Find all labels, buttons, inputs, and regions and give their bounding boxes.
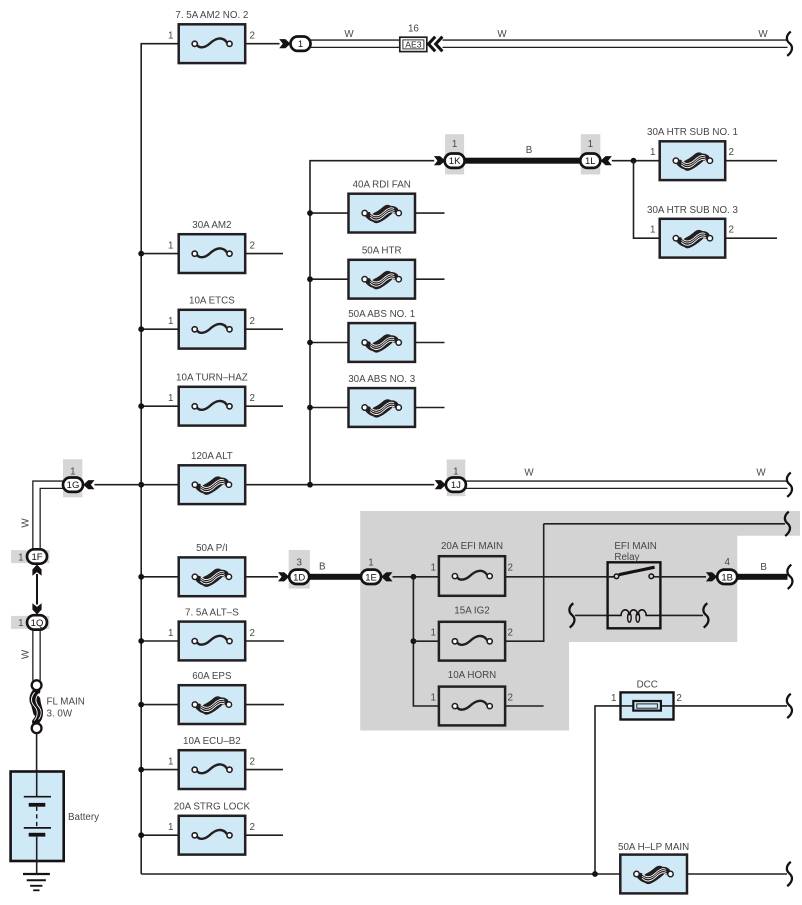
svg-text:30A HTR SUB NO. 1: 30A HTR SUB NO. 1 <box>647 127 738 138</box>
junction node <box>307 340 313 346</box>
connector 1G label box <box>63 459 82 497</box>
svg-text:DCC: DCC <box>637 679 658 690</box>
svg-text:15A IG2: 15A IG2 <box>454 605 489 616</box>
wire from 50A P/I pin 2 to 1D <box>245 576 278 578</box>
fuse 60A EPS <box>179 671 246 724</box>
junction node <box>138 251 144 257</box>
wire: bus to 30A ABS NO.3 <box>310 407 349 409</box>
connector 1D label box <box>289 550 310 589</box>
svg-text:1J: 1J <box>451 480 461 491</box>
fuse 10A TURN-HAZ <box>168 373 255 426</box>
svg-text:1: 1 <box>650 225 655 236</box>
fuse 7.5A AM2 NO.2 <box>168 10 255 63</box>
connector arrow into 1J <box>435 480 446 489</box>
svg-text:7. 5A ALT–S: 7. 5A ALT–S <box>185 607 239 618</box>
wire FL MAIN to battery <box>36 733 38 772</box>
junction node <box>138 832 144 838</box>
junction node <box>138 403 144 409</box>
wire: middle bus vertical <box>310 161 434 485</box>
svg-text:50A H–LP MAIN: 50A H–LP MAIN <box>618 842 689 853</box>
wire break symbol <box>787 694 792 718</box>
wire break symbol <box>703 603 708 627</box>
wire: bus to 10A ETCS <box>141 328 179 330</box>
connector 1K label box <box>445 134 464 174</box>
svg-text:1: 1 <box>298 39 303 50</box>
junction node <box>592 871 598 877</box>
junction node <box>411 574 417 580</box>
wire from bus left to 1G arrow <box>95 484 142 486</box>
wire break symbol <box>785 512 790 536</box>
connector arrow up into 1F <box>32 564 41 575</box>
svg-text:2: 2 <box>508 563 513 574</box>
junction node <box>138 638 144 644</box>
junction node middle bus on ALT wire <box>307 482 313 488</box>
svg-text:B: B <box>526 145 533 156</box>
fuse 50A ABS NO.1 <box>348 309 415 362</box>
svg-text:2: 2 <box>676 693 681 704</box>
fuse 40A RDI FAN <box>349 180 416 233</box>
svg-text:2: 2 <box>250 628 255 639</box>
wire from HTR SUB NO.3 pin 2 <box>725 237 777 239</box>
svg-text:1: 1 <box>430 692 435 703</box>
svg-text:1: 1 <box>168 756 173 767</box>
svg-text:2: 2 <box>250 31 255 42</box>
fuse 50A HTR <box>349 246 416 299</box>
wire from ETCS pin 2 <box>245 328 283 330</box>
hollow wire W from 1G down to 1F <box>33 481 63 550</box>
wire: bus to 50A P/I <box>141 576 179 578</box>
svg-text:50A ABS NO. 1: 50A ABS NO. 1 <box>348 309 415 320</box>
svg-text:7. 5A AM2 NO. 2: 7. 5A AM2 NO. 2 <box>175 10 248 21</box>
wire: bus to 30A AM2 <box>141 253 179 255</box>
svg-text:50A HTR: 50A HTR <box>362 246 402 257</box>
connector 1F label box <box>11 550 49 563</box>
svg-text:W: W <box>758 29 768 40</box>
hollow wire W: AE3 to right break <box>443 39 788 41</box>
svg-text:40A RDI FAN: 40A RDI FAN <box>353 180 411 191</box>
wire from 50A HTR pin 2 <box>415 278 445 280</box>
wire: bus to 10A ECU-B2 <box>141 769 179 771</box>
svg-text:2: 2 <box>508 628 513 639</box>
svg-text:W: W <box>756 467 766 478</box>
connector arrow down into 1Q <box>32 603 41 614</box>
svg-text:1: 1 <box>70 466 75 477</box>
junction node <box>138 767 144 773</box>
wire from ABS NO.3 pin 2 <box>415 407 445 409</box>
fuse 120A ALT <box>179 451 246 504</box>
wire: bus to 7.5A ALT-S <box>141 640 179 642</box>
wire: bus to 20A STRG LOCK <box>141 834 179 836</box>
svg-text:1: 1 <box>168 316 173 327</box>
connector oval 1 <box>291 37 311 51</box>
connector oval 1E <box>361 570 381 584</box>
svg-text:1: 1 <box>168 31 173 42</box>
connector oval 1D <box>289 570 309 584</box>
junction node <box>631 158 637 164</box>
hollow wire W: oval 1 to AE3 <box>311 39 401 41</box>
fuse 50A H-LP MAIN <box>618 842 689 894</box>
wire from ABS NO.1 pin 2 <box>415 342 445 344</box>
wire from 1E to 20A EFI MAIN <box>393 576 439 578</box>
svg-text:2: 2 <box>729 225 734 236</box>
svg-text:1: 1 <box>18 618 23 629</box>
svg-text:FL MAIN: FL MAIN <box>47 697 85 708</box>
svg-text:2: 2 <box>250 240 255 251</box>
junction node <box>307 210 313 216</box>
fuse 30A ABS NO.3 <box>348 374 416 427</box>
connector 1Q label box <box>11 616 49 629</box>
svg-text:1E: 1E <box>365 572 377 583</box>
wire from 30A AM2 pin 2 <box>245 253 283 255</box>
fuse 10A ETCS <box>168 296 255 349</box>
fuse 15A IG2 <box>430 605 513 660</box>
svg-text:1: 1 <box>168 240 173 251</box>
svg-text:30A ABS NO. 3: 30A ABS NO. 3 <box>348 374 416 385</box>
wire: bus to 60A EPS <box>141 704 179 706</box>
connector arrow into 1E <box>381 572 392 581</box>
wire: bottom bus horizontal <box>141 873 621 875</box>
svg-text:1: 1 <box>168 393 173 404</box>
wire from STRG LOCK pin 2 <box>245 834 283 836</box>
connector arrow into 1K <box>434 156 445 165</box>
svg-text:W: W <box>344 29 354 40</box>
wire break symbol <box>787 32 792 56</box>
wire: bus to 40A RDI FAN <box>310 212 349 214</box>
svg-text:120A ALT: 120A ALT <box>191 451 233 462</box>
svg-text:1: 1 <box>588 139 593 150</box>
svg-text:1Q: 1Q <box>31 618 44 629</box>
svg-text:3. 0W: 3. 0W <box>47 709 73 720</box>
svg-text:1G: 1G <box>67 480 80 491</box>
junction node <box>138 326 144 332</box>
connector oval 1Q <box>27 615 47 629</box>
relay EFI MAIN <box>608 541 661 629</box>
svg-text:1: 1 <box>650 147 655 158</box>
svg-text:3: 3 <box>296 557 302 568</box>
wire: left main bus vertical <box>141 44 179 874</box>
svg-text:2: 2 <box>508 692 513 703</box>
svg-text:10A TURN–HAZ: 10A TURN–HAZ <box>176 373 248 384</box>
svg-text:10A ETCS: 10A ETCS <box>189 296 235 307</box>
wire top band to right break <box>544 523 785 525</box>
wire: bus to 10A TURN-HAZ <box>141 405 179 407</box>
wire from H-LP MAIN pin 2 to break <box>687 873 787 875</box>
svg-text:4: 4 <box>724 557 730 568</box>
wire from IG2 pin 2 up to top band wire <box>505 524 544 641</box>
wire branch down to HTR SUB NO.3 <box>634 161 660 239</box>
svg-text:W: W <box>497 29 507 40</box>
wire branch down from 1E node to IG2 and HORN <box>413 577 439 706</box>
svg-text:1K: 1K <box>449 156 461 167</box>
svg-text:B: B <box>319 562 326 573</box>
junction node <box>138 482 144 488</box>
svg-text:30A HTR SUB NO. 3: 30A HTR SUB NO. 3 <box>647 205 738 216</box>
svg-text:W: W <box>21 518 32 528</box>
svg-text:1: 1 <box>453 466 458 477</box>
connector 1L label box <box>581 134 601 174</box>
fuse 20A EFI MAIN <box>430 541 513 596</box>
svg-text:1: 1 <box>368 557 373 568</box>
wire between 1F and 1Q <box>36 574 38 605</box>
fuse 10A HORN <box>430 670 513 725</box>
connector arrow into 1G <box>83 480 94 489</box>
wire break symbol <box>569 603 574 627</box>
svg-text:30A AM2: 30A AM2 <box>192 220 231 231</box>
connector oval 1B <box>717 570 737 584</box>
svg-text:Relay: Relay <box>614 552 639 563</box>
thick black wire B between 1D and 1E <box>310 574 362 580</box>
wire from 120A ALT pin 2 to 1J <box>245 484 434 486</box>
svg-text:1: 1 <box>18 552 23 563</box>
connector oval 1G <box>63 478 83 492</box>
wire relay switch to 1B <box>660 576 706 578</box>
svg-text:2: 2 <box>250 393 255 404</box>
svg-text:1: 1 <box>611 693 616 704</box>
connector oval 1F <box>27 549 47 563</box>
svg-text:50A P/I: 50A P/I <box>196 543 228 554</box>
wire from ALT-S pin 2 <box>245 640 284 642</box>
thick black wire B from 1B to break <box>737 574 787 580</box>
svg-text:2: 2 <box>250 822 255 833</box>
fuse 30A AM2 <box>168 220 255 273</box>
svg-text:1L: 1L <box>585 156 596 167</box>
fuse DCC <box>611 679 682 719</box>
connector oval 1K <box>445 154 465 168</box>
fuse 20A STRG LOCK <box>168 802 255 855</box>
wire from HTR SUB NO.1 pin 2 <box>725 160 777 162</box>
wire from fuse AM2 NO.2 pin 2 <box>245 43 279 45</box>
svg-text:20A EFI MAIN: 20A EFI MAIN <box>441 541 503 552</box>
connector oval 1L <box>580 154 600 168</box>
wire: bus to 120A ALT <box>141 484 179 486</box>
svg-text:W: W <box>524 467 534 478</box>
fuse 10A ECU-B2 <box>168 736 255 789</box>
svg-text:1F: 1F <box>31 552 42 563</box>
junction node <box>307 276 313 282</box>
junction node <box>138 702 144 708</box>
wire battery to ground <box>36 861 38 874</box>
connector arrow into 1B <box>706 572 717 581</box>
svg-text:20A STRG LOCK: 20A STRG LOCK <box>174 802 251 813</box>
wire to IG2 pin 1 <box>413 640 439 642</box>
hollow wire W from 1J to right break <box>466 480 788 482</box>
svg-text:1B: 1B <box>721 572 733 583</box>
junction node <box>411 638 417 644</box>
svg-text:Battery: Battery <box>68 812 99 823</box>
svg-text:2: 2 <box>250 756 255 767</box>
svg-text:1: 1 <box>168 628 173 639</box>
wire from HORN pin 2 stub <box>505 705 543 707</box>
svg-text:1: 1 <box>430 563 435 574</box>
ground <box>23 874 50 890</box>
connector AE3 pin 16 <box>400 23 427 51</box>
thick black wire B between 1K and 1L <box>464 158 581 164</box>
svg-text:10A HORN: 10A HORN <box>448 670 496 681</box>
wire relay coil right with break <box>660 614 703 616</box>
svg-text:2: 2 <box>250 316 255 327</box>
wire from 1L to HTR SUB fuses <box>612 160 660 162</box>
svg-text:B: B <box>760 562 767 573</box>
wire from EFI MAIN fuse pin 2 to relay <box>505 576 614 578</box>
connector arrow into 1L <box>601 156 612 165</box>
battery <box>11 772 100 862</box>
junction node <box>138 574 144 580</box>
wire from RDI FAN pin 2 <box>415 212 445 214</box>
fuse 30A HTR SUB NO.3 <box>647 205 738 258</box>
wire relay coil left with break <box>575 614 608 616</box>
shaded region: EFI main relay / junction block area <box>360 511 800 731</box>
connector 1J label box <box>447 460 466 497</box>
svg-text:AE3: AE3 <box>405 40 421 50</box>
double chevron after AE3 <box>429 37 443 52</box>
svg-text:1: 1 <box>430 628 435 639</box>
wire: bus to 50A ABS NO.1 <box>310 342 349 344</box>
wire from EPS pin 2 <box>245 704 284 706</box>
svg-text:W: W <box>21 649 32 659</box>
svg-text:2: 2 <box>729 147 734 158</box>
hollow wire W from 1Q down to FL MAIN <box>32 630 34 681</box>
fusible link FL MAIN 3.0W <box>32 680 85 733</box>
connector oval 1J <box>446 478 466 492</box>
svg-text:10A ECU–B2: 10A ECU–B2 <box>183 736 241 747</box>
wire from TURN-HAZ pin 2 <box>245 405 283 407</box>
svg-text:16: 16 <box>408 23 419 34</box>
fuse 50A P/I <box>179 543 246 596</box>
svg-text:1D: 1D <box>293 572 305 583</box>
svg-text:60A EPS: 60A EPS <box>192 671 232 682</box>
svg-text:EFI MAIN: EFI MAIN <box>614 541 656 552</box>
junction node <box>307 405 313 411</box>
wire break symbol <box>787 565 792 589</box>
wire from bottom bus up to DCC <box>595 706 621 874</box>
connector arrow into 1D <box>278 572 289 581</box>
svg-text:1: 1 <box>168 822 173 833</box>
fuse 7.5A ALT-S <box>168 607 255 660</box>
svg-text:1: 1 <box>452 139 457 150</box>
wire break symbol <box>787 862 792 886</box>
connector arrow into oval 1 <box>279 39 290 48</box>
wire: bus to 50A HTR <box>310 278 349 280</box>
wire from ECU-B2 pin 2 <box>245 769 283 771</box>
fuse 30A HTR SUB NO.1 <box>647 127 738 180</box>
wire from DCC pin 2 to break <box>673 705 787 707</box>
wire break symbol <box>787 473 792 497</box>
